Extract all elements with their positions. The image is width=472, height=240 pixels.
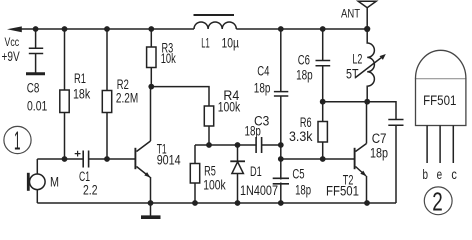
node R3 / T1 collector / R4	[148, 84, 154, 90]
microphone M	[36, 159, 38, 174]
antenna ANT	[358, 1, 376, 29]
text labels	[2, 35, 20, 64]
svg-text:C6: C6	[298, 53, 310, 68]
transistor T1	[134, 148, 136, 169]
node ground rail / D1	[235, 200, 241, 206]
node Vcc rail / C8	[33, 26, 39, 32]
svg-text:0.01: 0.01	[27, 99, 47, 114]
svg-text:R1: R1	[74, 71, 86, 86]
svg-text:L2: L2	[352, 52, 362, 67]
circled 2	[424, 187, 452, 215]
capacitor C7	[367, 102, 404, 203]
emitter arrow T1	[144, 172, 150, 178]
svg-text:9014: 9014	[157, 153, 181, 168]
svg-text:10µ: 10µ	[222, 36, 240, 51]
resistor R6	[322, 102, 324, 159]
wire top rail	[21, 28, 367, 30]
wire base right	[281, 145, 354, 203]
svg-text:C5: C5	[292, 167, 304, 182]
svg-text:b: b	[423, 167, 429, 182]
capacitor C3 plates	[256, 137, 262, 153]
node R4 / R5	[206, 142, 212, 148]
inductor L2	[367, 29, 374, 102]
svg-text:+9V: +9V	[2, 49, 20, 64]
transistor T2	[354, 148, 356, 169]
capacitor C1 plates	[83, 151, 88, 168]
svg-text:5T: 5T	[346, 67, 359, 82]
svg-text:FF501: FF501	[326, 184, 359, 199]
svg-text:100k: 100k	[203, 178, 226, 193]
emitter arrow T2	[360, 171, 366, 177]
node ground rail / T2 emitter	[364, 200, 370, 206]
svg-text:2.2M: 2.2M	[116, 91, 138, 106]
node emitter T1 / ground	[148, 200, 154, 206]
node Vcc rail / C6	[320, 26, 326, 32]
svg-text:FF501: FF501	[423, 93, 456, 108]
package leads b e c	[427, 126, 453, 164]
wire collector node to R4	[151, 87, 209, 106]
core bar of L1	[194, 14, 235, 16]
inductor L1	[194, 22, 236, 29]
svg-text:M: M	[50, 175, 59, 190]
svg-text:1N4007: 1N4007	[240, 183, 278, 198]
svg-text:C7: C7	[372, 131, 387, 146]
circled 1	[4, 126, 31, 153]
svg-text:18p: 18p	[245, 124, 261, 139]
node L2 / T2 collector / C7	[364, 99, 370, 105]
node base T1 / R1	[62, 156, 68, 162]
wire bottom rail	[37, 202, 396, 204]
node ground rail / C5	[278, 200, 284, 206]
Vcc arrow	[7, 26, 22, 32]
resistor R1	[64, 29, 66, 159]
node base T2 / C5	[278, 156, 284, 162]
node base T2 / R6	[320, 156, 326, 162]
svg-text:C4: C4	[257, 64, 270, 79]
diode D1	[237, 145, 239, 161]
svg-text:18k: 18k	[73, 87, 90, 102]
capacitor C8	[29, 29, 43, 73]
capacitor C6	[316, 29, 331, 102]
capacitor C4	[274, 29, 288, 145]
node D1 anode wire	[235, 142, 241, 148]
svg-text:18p: 18p	[296, 68, 313, 83]
trimmer arrow of L2	[356, 56, 385, 78]
svg-text:R6: R6	[300, 115, 312, 130]
svg-text:Vcc: Vcc	[5, 35, 20, 49]
node Vcc rail / R1	[62, 26, 68, 32]
svg-text:L1: L1	[201, 36, 210, 51]
svg-text:D1: D1	[250, 164, 262, 179]
wire mid (varicap net)	[195, 145, 281, 164]
node Vcc rail / R2	[104, 26, 110, 32]
resistor R5	[190, 164, 199, 184]
svg-text:10k: 10k	[161, 51, 176, 66]
node Vcc rail / C4	[278, 26, 284, 32]
svg-text:3.3k: 3.3k	[289, 129, 313, 144]
FF501 package	[416, 50, 466, 125]
svg-text:e: e	[437, 167, 443, 182]
resistor R3	[150, 29, 152, 87]
resistor R2	[106, 29, 108, 159]
ground	[150, 203, 152, 216]
node ANT	[364, 26, 370, 32]
ground bar of C8	[26, 72, 45, 75]
capacitor C5 plates	[273, 178, 289, 184]
svg-text:R5: R5	[204, 164, 216, 179]
svg-text:18p: 18p	[295, 183, 311, 198]
svg-text:18p: 18p	[254, 81, 271, 96]
resistor R4	[204, 106, 213, 126]
node C3 / C4 column	[278, 142, 284, 148]
node Vcc rail / R3	[148, 26, 154, 32]
svg-text:C8: C8	[27, 81, 40, 96]
wire C6 to L2	[323, 101, 367, 103]
svg-text:ANT: ANT	[341, 7, 361, 21]
wire base left	[37, 158, 135, 160]
plus sign of C1	[75, 151, 81, 157]
node base T1 / R2	[104, 156, 110, 162]
svg-text:2: 2	[432, 187, 443, 217]
svg-text:1: 1	[14, 126, 21, 156]
svg-text:100k: 100k	[218, 100, 241, 115]
svg-text:c: c	[451, 167, 457, 182]
svg-text:2.2: 2.2	[83, 183, 98, 198]
svg-text:18p: 18p	[370, 146, 388, 161]
node C6 / R6 / L2 wire	[320, 99, 326, 105]
node ground rail / R5	[192, 200, 198, 206]
